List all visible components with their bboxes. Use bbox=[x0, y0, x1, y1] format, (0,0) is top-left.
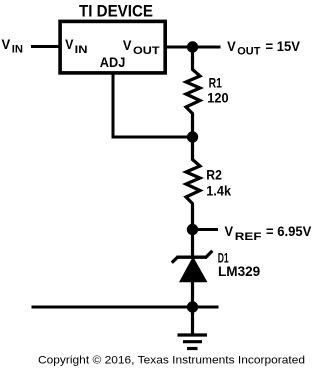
svg-text:REF: REF bbox=[235, 231, 262, 243]
diode D1 anode triangle bbox=[179, 257, 208, 283]
resistor R1 bbox=[186, 47, 200, 137]
node VOUT = 15V label bbox=[227, 38, 301, 58]
wire diode anode to ground rail bbox=[191, 282, 194, 307]
node VREF = 6.95V label bbox=[225, 223, 313, 243]
node VIN input label bbox=[2, 36, 24, 56]
svg-text:V: V bbox=[2, 36, 11, 52]
svg-text:LM329: LM329 bbox=[218, 263, 260, 279]
wire ADJ feedback bbox=[113, 73, 193, 137]
wire input VIN to box bbox=[31, 45, 60, 48]
svg-text:= 15V: = 15V bbox=[266, 38, 301, 54]
junction ADJ node dot bbox=[187, 131, 198, 142]
svg-text:V: V bbox=[225, 223, 234, 239]
wire VREF node to diode cathode bbox=[191, 230, 194, 256]
pin VIN label inside box bbox=[65, 36, 87, 56]
svg-text:V: V bbox=[65, 36, 74, 52]
ground bbox=[178, 307, 208, 349]
svg-text:120: 120 bbox=[207, 90, 228, 106]
svg-text:IN: IN bbox=[12, 43, 23, 55]
svg-text:1.4k: 1.4k bbox=[206, 183, 231, 199]
svg-text:= 6.95V: = 6.95V bbox=[266, 223, 312, 239]
svg-text:ADJ: ADJ bbox=[100, 54, 126, 70]
svg-text:TI DEVICE: TI DEVICE bbox=[79, 2, 153, 21]
op-amp U1 regulator box bbox=[60, 21, 165, 73]
label D1 LM329 bbox=[218, 249, 261, 279]
svg-text:Copyright © 2016, Texas Instru: Copyright © 2016, Texas Instruments Inco… bbox=[38, 355, 305, 367]
svg-text:V: V bbox=[123, 37, 132, 53]
svg-text:OUT: OUT bbox=[133, 45, 160, 57]
svg-text:OUT: OUT bbox=[237, 46, 260, 58]
wire bottom return rail bbox=[32, 306, 219, 309]
junction VREF node dot bbox=[187, 224, 198, 235]
wire VREF stub bbox=[193, 228, 219, 231]
svg-text:R2: R2 bbox=[206, 166, 222, 182]
label R1 120 bbox=[207, 74, 228, 105]
junction ground node dot bbox=[187, 301, 198, 312]
svg-text:IN: IN bbox=[75, 44, 88, 56]
svg-text:R1: R1 bbox=[209, 74, 222, 90]
diode D1 zener cathode bar bbox=[172, 251, 213, 263]
resistor R2 bbox=[186, 137, 200, 230]
label R2 1.4k bbox=[206, 166, 231, 198]
junction VOUT node dot bbox=[187, 41, 198, 52]
svg-text:V: V bbox=[227, 38, 236, 54]
wire output box to VOUT node bbox=[165, 46, 221, 49]
pin VOUT label inside box bbox=[123, 37, 160, 57]
